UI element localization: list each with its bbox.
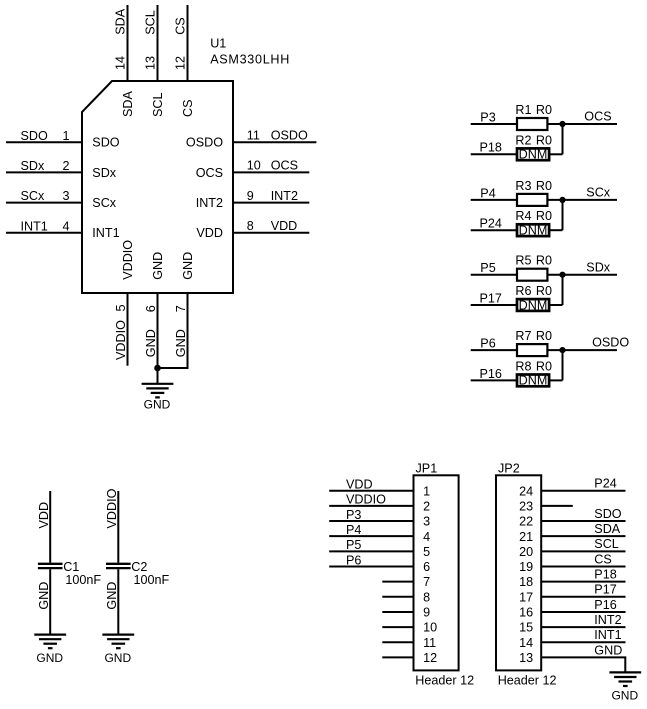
resistor R8 body (DNM) [517,375,549,387]
svg-text:P4: P4 [346,523,361,537]
svg-text:P24: P24 [594,477,616,491]
svg-text:Header 12: Header 12 [415,674,474,688]
svg-text:15: 15 [519,621,533,635]
svg-text:R6: R6 [515,284,531,298]
svg-text:14: 14 [114,56,128,70]
ground symbol GND (under U1) [142,384,174,412]
wire capacitor C2 to GND [117,569,119,634]
wire pin 10 net OCS (right) [233,171,309,173]
svg-text:VDD: VDD [196,226,223,240]
svg-text:GND: GND [37,582,51,610]
wire net P18 to resistor R2 [471,153,517,155]
svg-text:R3: R3 [515,179,531,193]
wire vertical R8 up to net OSDO [562,350,564,380]
wire pin 7 net GND (bottom, elbow to junction) [158,293,188,368]
svg-text:11: 11 [423,636,436,650]
wire JP1 pin 5 net P5 [329,550,413,552]
wire resistor R6 to junction [549,304,562,306]
svg-text:Header 12: Header 12 [498,674,557,688]
svg-text:ASM330LHH: ASM330LHH [210,53,290,67]
svg-text:R0: R0 [536,329,552,343]
wire net P5 to resistor R5 [471,274,517,276]
wire JP2 pin 24 net P24 [541,490,625,492]
svg-text:3: 3 [62,189,69,203]
svg-text:SCx: SCx [92,196,116,210]
wire net P6 to resistor R7 [471,349,517,351]
svg-text:SCL: SCL [594,537,619,551]
wire JP1 pin 11 (unconnected stub) [382,641,413,643]
wire JP2 pin 22 net SDO [541,520,625,522]
svg-text:7: 7 [174,305,188,312]
junction dot net SDx [559,272,565,278]
wire JP2 pin 16 net P16 [541,611,625,613]
svg-text:DNM: DNM [519,148,548,162]
wire pin 3 net SCx (left) [6,202,82,204]
wire vertical R4 up to net SCx [562,200,564,230]
svg-text:11: 11 [247,128,260,142]
svg-text:SDx: SDx [21,159,45,173]
svg-text:VDD: VDD [271,219,298,233]
wire pin 1 net SDO (left) [6,141,82,143]
svg-text:19: 19 [519,560,533,574]
header JP2 body [496,475,541,670]
wire net P3 to resistor R1 [471,123,517,125]
wire net P4 to resistor R3 [471,199,517,201]
svg-text:22: 22 [519,515,533,529]
wire pin 13 net SCL (top) [157,5,159,81]
svg-text:6: 6 [423,560,430,574]
wire JP2 pin 18 net P18 [541,581,625,583]
svg-text:R0: R0 [536,284,552,298]
wire capacitor C1 to GND [49,569,51,634]
svg-text:P5: P5 [346,538,361,552]
svg-text:R4: R4 [515,209,531,223]
svg-text:3: 3 [423,515,430,529]
svg-text:OCS: OCS [196,166,223,180]
svg-text:1: 1 [423,484,430,498]
svg-text:21: 21 [519,530,533,544]
wire pin 12 net CS (top) [187,5,189,81]
svg-text:VDD: VDD [37,502,51,529]
svg-text:23: 23 [519,499,533,513]
svg-text:C1: C1 [63,560,79,574]
svg-text:SCx: SCx [21,189,45,203]
wire JP2 pin 20 net SCL [541,550,625,552]
wire JP1 pin 10 (unconnected stub) [382,626,413,628]
junction dot GND node [154,365,161,372]
svg-text:7: 7 [423,575,430,589]
wire pin 14 net SDA (top) [127,5,129,81]
wire resistor R4 to junction [549,229,562,231]
wire net P24 to resistor R4 [471,229,517,231]
svg-text:OCS: OCS [584,110,611,124]
svg-text:SDx: SDx [586,260,610,274]
svg-text:100nF: 100nF [65,573,101,587]
svg-text:12: 12 [423,651,437,665]
wire resistor R8 to junction [549,379,562,381]
svg-text:C2: C2 [131,560,147,574]
svg-text:P17: P17 [480,291,502,305]
svg-text:SDO: SDO [92,136,119,150]
svg-text:VDDIO: VDDIO [121,240,135,280]
header JP1 body [414,475,459,670]
svg-text:GND: GND [611,689,638,703]
IC U1 ASM330LHH body outline [82,81,233,293]
svg-text:1: 1 [62,129,69,143]
junction dot net SCx [559,197,565,203]
svg-text:VDD: VDD [346,478,373,492]
svg-text:17: 17 [519,590,533,604]
wire resistor R5 to net SDx [547,274,617,276]
svg-text:GND: GND [105,582,119,610]
svg-text:5: 5 [423,545,430,559]
svg-text:GND: GND [151,252,165,280]
resistor R4 body (DNM) [517,224,549,236]
svg-text:R2: R2 [515,133,531,147]
svg-text:P16: P16 [594,598,616,612]
wire pin 11 net OSDO (right) [233,141,316,143]
svg-text:P24: P24 [480,217,502,231]
svg-text:12: 12 [174,56,188,70]
svg-text:R0: R0 [536,209,552,223]
svg-text:INT1: INT1 [594,628,621,642]
svg-text:10: 10 [423,621,437,635]
wire resistor R7 to net OSDO [547,349,617,351]
wire JP2 pin 17 net P17 [541,596,625,598]
svg-text:CS: CS [594,552,612,566]
resistor R1 body [517,118,547,130]
svg-text:P6: P6 [480,337,495,351]
svg-text:R0: R0 [536,254,552,268]
svg-text:20: 20 [519,545,533,559]
resistor R3 body [517,194,547,206]
wire JP1 pin 4 net P4 [329,535,413,537]
wire vertical R6 up to net SDx [562,275,564,305]
svg-text:GND: GND [174,329,188,357]
svg-text:5: 5 [114,304,128,311]
svg-text:9: 9 [423,606,430,620]
svg-text:SCL: SCL [151,93,165,118]
svg-text:INT1: INT1 [92,226,119,240]
svg-text:JP2: JP2 [498,461,520,475]
svg-text:24: 24 [519,484,533,498]
svg-text:16: 16 [519,606,533,620]
svg-text:GND: GND [594,643,622,657]
svg-text:8: 8 [247,219,254,233]
wire JP1 pin 6 net P6 [329,565,413,567]
svg-text:GND: GND [144,398,171,412]
wire JP2 pin 23 (unconnected stub) [541,505,573,507]
svg-text:R8: R8 [515,359,531,373]
wire JP1 pin 8 (unconnected stub) [382,596,413,598]
svg-text:SCL: SCL [144,10,158,35]
wire JP2 pin 14 net INT1 [541,641,625,643]
svg-text:VDDIO: VDDIO [346,493,386,507]
svg-text:P6: P6 [346,553,361,567]
svg-text:JP1: JP1 [416,461,438,475]
svg-text:P5: P5 [480,261,495,275]
svg-text:14: 14 [519,636,533,650]
wire resistor R2 to junction [549,153,562,155]
svg-text:OSDO: OSDO [592,336,629,350]
wire pin 8 net VDD (right) [233,232,309,234]
svg-text:R0: R0 [536,359,552,373]
svg-text:CS: CS [181,100,195,118]
junction dot net OCS [559,121,565,127]
wire JP1 pin 1 net VDD [329,490,413,492]
wire pin 6 net GND (bottom) [157,293,159,368]
svg-text:P3: P3 [480,110,495,124]
resistor R5 body [517,269,547,281]
svg-text:R0: R0 [536,103,552,117]
svg-text:DNM: DNM [519,374,548,388]
svg-text:INT1: INT1 [21,219,48,233]
svg-text:SCx: SCx [586,186,610,200]
svg-text:SDO: SDO [21,129,48,143]
wire pin 2 net SDx (left) [6,171,82,173]
svg-text:13: 13 [519,651,533,665]
svg-text:P18: P18 [480,141,502,155]
svg-text:R0: R0 [536,133,552,147]
svg-text:INT2: INT2 [271,189,298,203]
svg-text:GND: GND [181,252,195,280]
wire JP2 pin 19 net CS [541,565,625,567]
svg-text:SDO: SDO [594,507,621,521]
svg-text:OCS: OCS [271,159,298,173]
svg-text:R5: R5 [515,254,531,268]
wire JP1 pin 9 (unconnected stub) [382,611,413,613]
svg-text:2: 2 [62,159,69,173]
ground symbol GND (under JP2) [609,672,641,702]
svg-text:9: 9 [247,189,254,203]
svg-text:INT2: INT2 [196,196,223,210]
svg-text:U1: U1 [210,36,226,50]
capacitor C2 bottom plate [106,567,131,569]
svg-text:2: 2 [423,499,430,513]
junction dot net OSDO [559,347,565,353]
wire net P16 to resistor R8 [471,379,517,381]
svg-text:SDA: SDA [114,8,128,34]
svg-text:R7: R7 [515,329,531,343]
wire pin 9 net INT2 (right) [233,202,309,204]
svg-text:CS: CS [174,17,188,35]
wire junction to ground symbol [157,368,159,384]
svg-text:P18: P18 [594,568,616,582]
wire resistor R3 to net SCx [547,199,617,201]
svg-text:R0: R0 [536,179,552,193]
wire JP1 pin 7 (unconnected stub) [382,581,413,583]
svg-text:4: 4 [423,530,430,544]
wire JP1 pin 2 net VDDIO [329,505,413,507]
resistor R7 body [517,344,547,356]
ground symbol GND (under C2) [102,635,134,665]
svg-text:6: 6 [144,305,158,312]
svg-text:P17: P17 [594,583,616,597]
wire net VDDIO to capacitor C2 [117,491,119,563]
svg-text:VDDIO: VDDIO [105,488,119,528]
svg-text:DNM: DNM [519,298,548,312]
capacitor C2 top plate [106,563,131,565]
resistor R2 body (DNM) [517,148,549,160]
svg-text:VDDIO: VDDIO [114,320,128,360]
svg-text:P4: P4 [480,186,495,200]
wire pin 5 net VDDIO (bottom) [127,293,129,366]
ground symbol GND (under C1) [34,635,66,665]
svg-text:P3: P3 [346,508,361,522]
wire net VDD to capacitor C1 [49,491,51,563]
wire JP2 pin 21 net SDA [541,535,625,537]
svg-text:R1: R1 [515,103,531,117]
wire JP1 pin 12 (unconnected stub) [382,656,413,658]
svg-text:OSDO: OSDO [271,128,308,142]
wire JP1 pin 3 net P3 [329,520,413,522]
svg-text:OSDO: OSDO [186,136,223,150]
svg-text:INT2: INT2 [594,613,621,627]
wire pin 4 net INT1 (left) [6,232,82,234]
svg-text:SDA: SDA [121,91,135,117]
svg-text:GND: GND [36,651,63,665]
wire resistor R1 to net OCS [547,123,617,125]
capacitor C1 bottom plate [38,567,63,569]
svg-text:SDx: SDx [92,166,116,180]
svg-text:100nF: 100nF [134,573,170,587]
svg-text:P16: P16 [480,367,502,381]
wire vertical R2 up to net OCS [562,124,564,154]
resistor R6 body (DNM) [517,299,549,311]
wire JP2 pin 15 net INT2 [541,626,625,628]
svg-text:10: 10 [247,159,261,173]
svg-text:13: 13 [144,56,158,70]
svg-text:18: 18 [519,575,533,589]
svg-text:8: 8 [423,590,430,604]
svg-text:4: 4 [62,219,69,233]
wire JP2 pin 13 net GND (elbow down) [541,657,625,672]
svg-text:GND: GND [144,329,158,357]
svg-text:DNM: DNM [519,224,548,238]
svg-text:SDA: SDA [594,522,620,536]
wire net P17 to resistor R6 [471,304,517,306]
svg-text:GND: GND [104,651,131,665]
capacitor C1 top plate [38,563,63,565]
